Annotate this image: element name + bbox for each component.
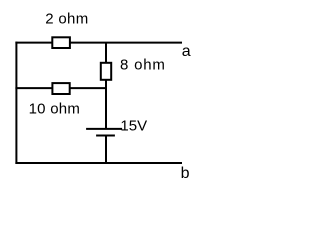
svg-text:8 ohm: 8 ohm — [120, 57, 166, 74]
resistor 8 ohm body — [101, 63, 111, 80]
wire left vertical — [15, 42, 17, 164]
battery V1 short plate — [96, 135, 115, 137]
svg-text:a: a — [182, 43, 191, 60]
svg-text:15V: 15V — [120, 118, 147, 135]
svg-text:b: b — [181, 165, 190, 182]
wire branch vertical top segment — [105, 43, 107, 64]
wire battery top lead — [105, 88, 107, 129]
wire battery bottom lead — [105, 136, 107, 165]
wire middle — [15, 87, 107, 89]
wire branch vertical lower segment — [105, 79, 107, 89]
resistor 2 ohm body — [52, 37, 70, 48]
svg-text:2 ohm: 2 ohm — [45, 11, 88, 28]
svg-text:10 ohm: 10 ohm — [29, 101, 81, 118]
battery V1 long plate — [86, 128, 122, 130]
wire bottom (node b rail) — [15, 162, 182, 164]
wire top (node a rail) — [15, 42, 182, 44]
resistor 10 ohm body — [52, 83, 69, 94]
